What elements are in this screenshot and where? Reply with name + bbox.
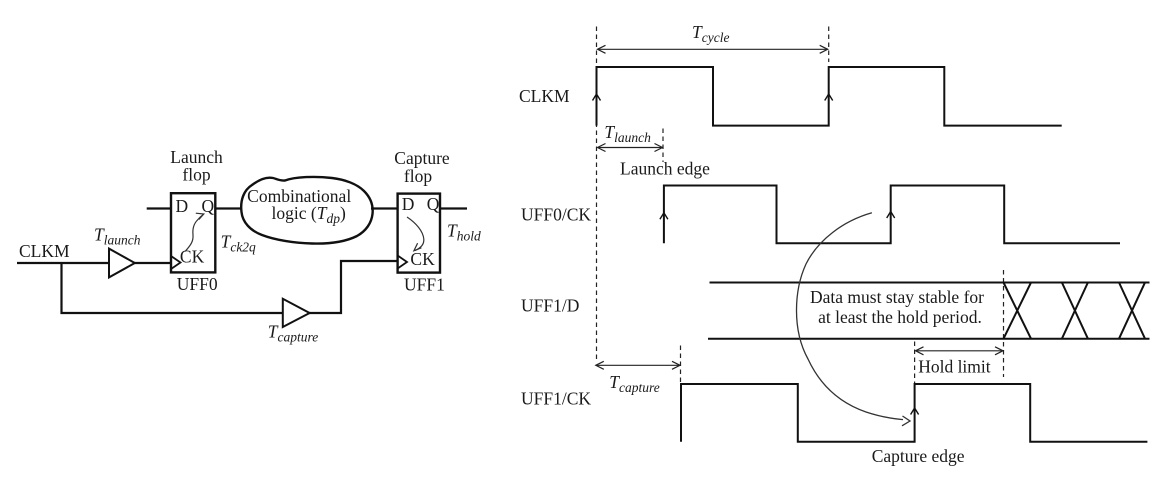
wire branch down and bottom run to capture path — [62, 261, 398, 313]
long curved pointer from launch edge to capture edge — [797, 213, 911, 426]
svg-text:Hold limit: Hold limit — [918, 357, 991, 377]
clock wedge UFF0 — [171, 256, 181, 269]
waveform UFF0/CK — [664, 186, 1120, 244]
combinational logic cloud — [241, 177, 372, 244]
dashed reference line at second CLKM rising edge — [828, 27, 830, 63]
hold limit dimension arrow — [916, 347, 1004, 355]
wire CLKM main horizontal — [17, 262, 171, 264]
svg-text:Launch edge: Launch edge — [620, 159, 710, 179]
dashed reference line at end of hold period — [1003, 270, 1005, 377]
T_launch dimension arrow — [598, 144, 663, 152]
edge arrowhead on UFF1/CK capture rise — [911, 408, 919, 415]
waveform UFF1/CK — [681, 384, 1147, 442]
svg-text:Data must stay stable for: Data must stay stable for — [810, 287, 984, 307]
svg-text:UFF1: UFF1 — [404, 275, 445, 295]
svg-text:flop: flop — [404, 166, 432, 186]
internal hold arrow UFF1 (D to CK) — [407, 217, 424, 251]
flip-flop UFF1 (capture flop box) — [398, 194, 440, 273]
edge arrowhead on UFF0/CK first rise — [660, 213, 668, 220]
buffer T_capture (clock buffer B2) — [283, 299, 310, 327]
clock wedge UFF1 — [398, 256, 407, 269]
waveform UFF1/D data rails — [708, 283, 1150, 339]
svg-text:Q: Q — [202, 196, 215, 216]
edge arrowhead on CLKM first rise — [593, 94, 601, 101]
svg-text:UFF1/CK: UFF1/CK — [521, 389, 591, 409]
data crossing X2 — [1062, 283, 1088, 339]
data crossing X3 — [1119, 283, 1145, 339]
waveform CLKM — [597, 67, 1062, 126]
wire cloud to UFF1 D — [371, 207, 398, 209]
svg-text:Q: Q — [427, 194, 440, 214]
svg-text:CK: CK — [410, 249, 435, 269]
dashed reference line above UFF1/CK first rise — [680, 346, 682, 385]
wire UFF1 Q output stub — [440, 207, 467, 209]
wire D input stub UFF0 — [147, 207, 171, 209]
dashed reference line at first CLKM rising edge — [596, 27, 598, 361]
svg-text:at least the hold period.: at least the hold period. — [818, 307, 982, 327]
svg-text:Capture edge: Capture edge — [872, 446, 965, 466]
dashed reference line at capture edge / hold start — [914, 342, 916, 384]
wire UFF0 Q to cloud — [215, 207, 243, 209]
svg-text:CLKM: CLKM — [19, 241, 70, 261]
svg-text:CLKM: CLKM — [519, 86, 570, 106]
T_capture dimension arrow — [596, 361, 680, 369]
data crossing X1 — [1004, 283, 1032, 339]
T_cycle dimension arrow — [598, 45, 828, 53]
internal ck-to-q arrow UFF0 — [185, 213, 204, 251]
svg-text:UFF1/D: UFF1/D — [521, 295, 579, 315]
dashed reference line at launch edge — [662, 129, 664, 163]
flip-flop UFF0 (launch flop box) — [171, 193, 215, 272]
svg-text:flop: flop — [182, 165, 210, 185]
svg-text:CK: CK — [180, 246, 205, 266]
svg-text:D: D — [176, 196, 189, 216]
edge arrowhead on CLKM second rise — [825, 94, 833, 101]
svg-text:UFF0: UFF0 — [177, 274, 218, 294]
buffer T_launch (clock buffer B1) — [109, 249, 135, 278]
svg-text:D: D — [402, 194, 415, 214]
svg-text:UFF0/CK: UFF0/CK — [521, 204, 591, 224]
edge arrowhead on UFF0/CK second rise — [887, 212, 895, 219]
